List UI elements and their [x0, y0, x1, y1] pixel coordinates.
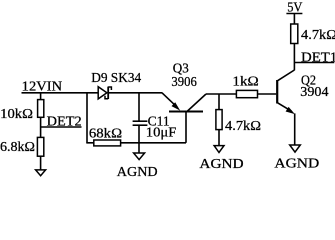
- resistor 6.8k: [37, 137, 43, 156]
- resistor 10k: [38, 100, 44, 118]
- wire 12VIN rail: [22, 92, 99, 94]
- svg-text:AGND: AGND: [117, 164, 158, 178]
- svg-text:3906: 3906: [171, 74, 197, 89]
- resistor 4.7k top: [291, 24, 298, 44]
- svg-text:10kΩ: 10kΩ: [0, 106, 33, 121]
- wire Q3 collector rail: [206, 93, 236, 95]
- capacitor C11: [133, 121, 148, 125]
- wire C11 bottom to ground: [138, 125, 140, 153]
- wire diode cathode to Q3 emitter: [108, 92, 162, 94]
- svg-text:DET2: DET2: [47, 113, 82, 128]
- resistor 4.7k middle: [216, 110, 222, 130]
- svg-text:4.7kΩ: 4.7kΩ: [225, 118, 261, 133]
- ground AGND left (below 6.8k): [36, 170, 46, 176]
- svg-text:AGND: AGND: [274, 156, 319, 171]
- ground AGND below 4.7k middle: [214, 146, 224, 153]
- wire C11 top lead: [138, 93, 140, 121]
- svg-text:DET1: DET1: [301, 49, 335, 64]
- wire 68k drop from rail: [86, 93, 88, 143]
- wire Q3 base lead: [185, 112, 187, 143]
- wire 1k to Q2 base: [258, 93, 277, 95]
- svg-text:10μF: 10μF: [146, 125, 177, 140]
- diode D9 SK34: [98, 87, 111, 99]
- svg-text:3904: 3904: [300, 84, 328, 99]
- ground AGND below Q2 emitter: [290, 145, 301, 152]
- svg-text:1kΩ: 1kΩ: [232, 74, 258, 89]
- wire DET1 underline: [294, 62, 334, 64]
- svg-text:6.8kΩ: 6.8kΩ: [0, 139, 35, 154]
- resistor 68k: [94, 140, 121, 146]
- svg-text:D9 SK34: D9 SK34: [91, 70, 141, 85]
- wire 10k top lead: [40, 93, 42, 100]
- svg-text:AGND: AGND: [199, 156, 243, 171]
- wire Q2 emitter to ground: [294, 113, 296, 145]
- svg-text:4.7kΩ: 4.7kΩ: [301, 27, 335, 42]
- transistor Q3 3906 PNP: [162, 93, 206, 112]
- resistor 1k: [236, 90, 257, 97]
- wire 68k row to Q3 base: [86, 142, 186, 144]
- wire 10k to 6.8k: [40, 117, 42, 137]
- wire 4.7k mid to ground: [218, 130, 220, 146]
- transistor Q2 3904 NPN: [277, 70, 295, 114]
- svg-text:68kΩ: 68kΩ: [89, 126, 122, 141]
- wire 5V underline: [286, 13, 302, 15]
- wire DET2 stub: [41, 126, 82, 128]
- wire 4.7k mid top lead: [218, 94, 220, 110]
- wire 5V lead: [293, 14, 295, 25]
- svg-text:5V: 5V: [287, 0, 302, 14]
- wire 6.8k to ground: [40, 156, 42, 170]
- wire 4.7k top to Q2 collector: [293, 44, 295, 71]
- ground AGND below C11: [134, 153, 145, 160]
- svg-text:12VIN: 12VIN: [22, 78, 63, 93]
